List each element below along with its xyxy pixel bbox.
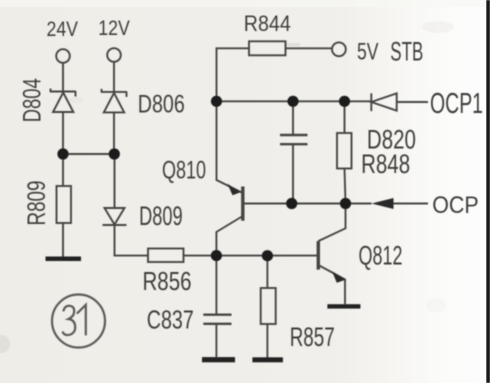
transistor Q810 bar <box>241 187 244 221</box>
svg-text:OCP: OCP <box>432 192 479 219</box>
faint corner shade bottom-left <box>0 335 10 353</box>
node top rail cap <box>287 96 298 107</box>
wire R857 bottom <box>266 324 268 358</box>
Q810 base wire <box>243 203 292 205</box>
wire D820 to OCP1 <box>397 101 428 103</box>
wire R809 to ground <box>62 223 64 257</box>
node A <box>211 250 222 261</box>
terminal 5V STB <box>332 42 346 56</box>
diode D809 <box>103 208 127 225</box>
node top rail left <box>211 96 222 107</box>
ground (Q812) <box>327 304 360 308</box>
resistor R856 <box>148 249 184 263</box>
wire C837 bottom <box>215 324 217 357</box>
zener diode D804 <box>50 89 76 113</box>
Q812 emitter <box>318 265 345 304</box>
OCP input arrow <box>372 198 394 209</box>
svg-text:12V: 12V <box>98 17 130 40</box>
terminal 24V <box>56 49 70 63</box>
capacitor C837 <box>203 315 231 324</box>
wire R848 bottom <box>345 169 346 204</box>
ground (C837) <box>202 357 235 362</box>
svg-text:D806: D806 <box>138 91 185 119</box>
junction node dots <box>57 96 351 262</box>
wire 12V node to D809 <box>114 154 116 208</box>
svg-text:24V: 24V <box>47 18 79 41</box>
svg-text:R856: R856 <box>143 266 192 296</box>
wire D804 to node <box>62 113 64 155</box>
page edge dark line right <box>486 0 490 383</box>
node top rail R848 <box>339 96 350 107</box>
node 24V/12V left <box>57 148 68 159</box>
Q810 collector <box>216 216 242 256</box>
faint smudge left <box>69 97 83 103</box>
faint smudge near R844 <box>286 43 300 46</box>
wire node to R809 <box>62 154 64 186</box>
wire node 24V to node 12V <box>63 153 114 155</box>
terminal 12V <box>107 48 121 62</box>
svg-text:STB: STB <box>390 36 423 66</box>
svg-text:5V: 5V <box>357 39 379 66</box>
svg-text:D809: D809 <box>139 201 183 231</box>
svg-text:R848: R848 <box>361 149 410 179</box>
diode D820 <box>371 93 396 111</box>
svg-text:OCP1: OCP1 <box>430 88 483 120</box>
wire Q812 collector lead <box>318 204 345 242</box>
wire R857 top <box>266 256 268 288</box>
light strip top <box>0 0 490 7</box>
wire OCP arrow to label <box>394 203 429 205</box>
resistor R857 <box>261 288 276 324</box>
svg-text:R857: R857 <box>290 322 335 352</box>
ground (R809) <box>46 257 82 262</box>
wire top rail <box>217 100 372 102</box>
wire cap top <box>292 101 294 135</box>
svg-text:Q810: Q810 <box>162 157 206 185</box>
wire Q810 emitter lead <box>217 101 243 193</box>
Q812 emitter arrow <box>332 271 346 283</box>
zener diode D806 <box>101 89 127 113</box>
svg-text:Q812: Q812 <box>359 241 403 271</box>
resistor R848 <box>337 133 352 169</box>
wire R856 to node A <box>184 255 217 257</box>
capacitor (filter) <box>280 135 308 144</box>
svg-text:R809: R809 <box>23 181 51 226</box>
wire R848 top <box>344 101 346 133</box>
node 24V/12V right <box>109 148 120 159</box>
node mid rail cap <box>286 198 297 209</box>
resistor R844 <box>249 41 286 55</box>
faint smudge top-right <box>422 21 454 33</box>
wire 24V terminal to D804 <box>62 63 64 91</box>
ground (R857) <box>252 357 283 362</box>
svg-text:R844: R844 <box>244 11 291 36</box>
svg-text:C837: C837 <box>147 305 194 335</box>
faint smudge bottom-right <box>426 298 446 312</box>
wire node A to Q812 base <box>216 255 318 257</box>
Q810 emitter arrow <box>228 184 241 196</box>
svg-text:D804: D804 <box>19 78 47 122</box>
wire corner R844 vertical <box>217 48 250 101</box>
node mid rail R848 <box>340 198 351 209</box>
wire node A to C837 <box>215 256 217 315</box>
resistor R809 <box>57 186 72 223</box>
wire mid rail <box>292 203 372 205</box>
transistor Q812 bar <box>317 241 320 270</box>
wire 12V terminal to D806 <box>113 62 115 91</box>
page number circle 31 <box>52 295 105 348</box>
wire R844 to 5V terminal <box>286 47 332 49</box>
wire D806 to node <box>113 113 115 155</box>
wire cap bottom <box>292 144 294 203</box>
wire D809 down and right to R856 <box>115 225 149 256</box>
node R857 <box>262 250 273 261</box>
